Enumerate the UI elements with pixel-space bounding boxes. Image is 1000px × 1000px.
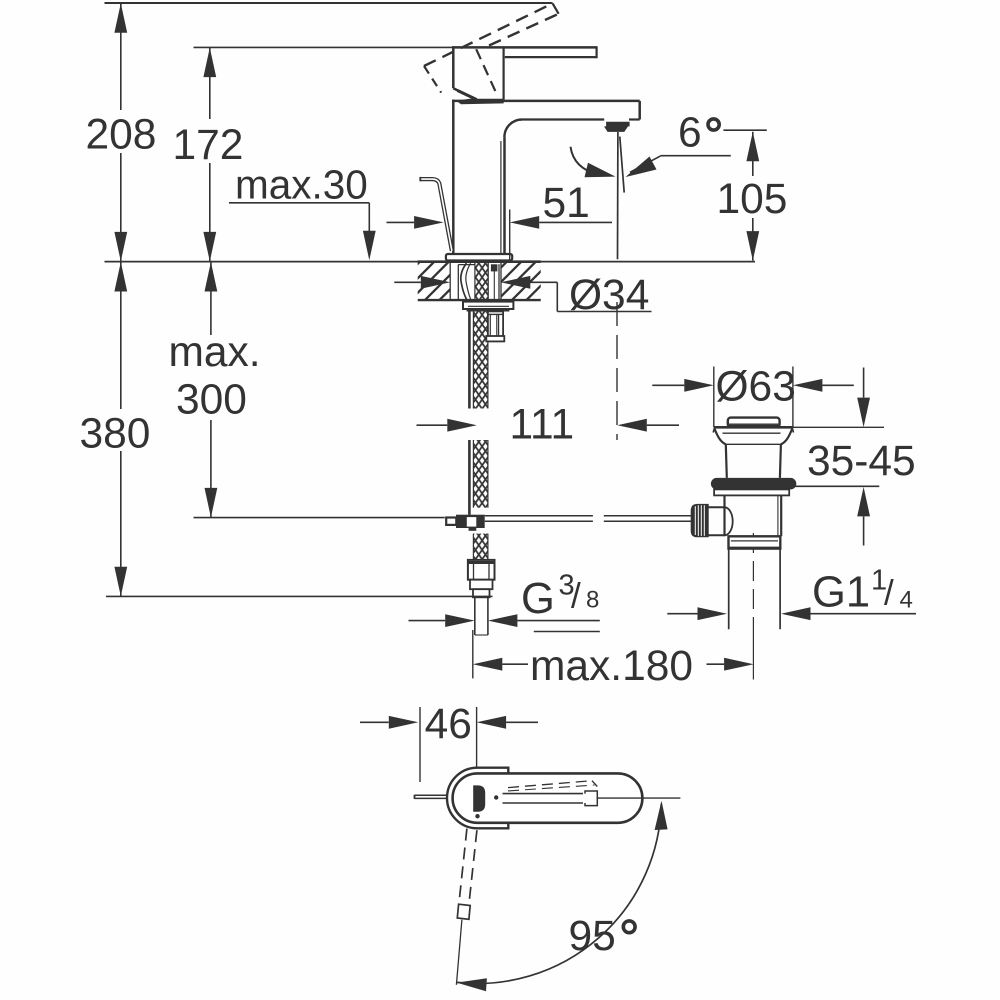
- top view centerline: [598, 797, 681, 799]
- svg-text:6: 6: [678, 110, 702, 157]
- top view cartridge mark: [473, 785, 485, 811]
- seal funnel curves: [461, 263, 467, 299]
- reference line 380 bottom: [106, 595, 493, 597]
- knurled knob: [692, 505, 708, 536]
- dim 208: [114, 3, 127, 33]
- pop-up rod (vertical, upper): [468, 311, 471, 409]
- svg-text:105: 105: [717, 176, 788, 223]
- horizontal pop-up rod to drain: [485, 515, 593, 517]
- svg-text:8: 8: [586, 587, 599, 614]
- svg-text:111: 111: [510, 402, 575, 449]
- faucet body left wall: [452, 100, 455, 255]
- svg-text:46: 46: [425, 701, 472, 748]
- drain hole centerline: [616, 302, 618, 440]
- svg-text:/: /: [571, 577, 581, 616]
- hose tail tube G3/8: [474, 597, 476, 635]
- countertop hatch left: [418, 263, 450, 300]
- spout underside: [629, 118, 640, 120]
- shank right tube: [498, 264, 500, 299]
- hose end hex nut: [468, 560, 495, 580]
- top view pop-up rod stub: [415, 794, 447, 796]
- washer under counter: [463, 302, 513, 309]
- water stream tilted 6deg: [620, 137, 624, 193]
- mounting hole left edge: [449, 263, 451, 300]
- countertop bottom line: [418, 299, 541, 301]
- dim max.180: [472, 630, 474, 678]
- funnel sides: [715, 429, 726, 445]
- lever (solid position): [452, 46, 597, 49]
- top view escutcheon: [447, 768, 508, 829]
- top view lever capsule: [453, 773, 643, 822]
- svg-text:208: 208: [86, 111, 157, 158]
- svg-text:380: 380: [80, 410, 151, 457]
- svg-text:95: 95: [569, 913, 616, 960]
- dim 172: [203, 48, 216, 78]
- threaded shank crosshatch (in hole): [475, 263, 488, 300]
- black seal band: [467, 309, 510, 312]
- svg-text:max.: max.: [169, 329, 261, 376]
- faucet body top: [452, 100, 640, 103]
- drain body: [723, 495, 725, 536]
- 95 degree arc: [457, 804, 661, 984]
- svg-text:max.30: max.30: [235, 162, 368, 208]
- aerator (black): [604, 122, 630, 132]
- dim G3/8: [409, 620, 446, 622]
- handle body: [452, 46, 455, 88]
- flexible hose crosshatch: [473, 311, 488, 408]
- drain pipe G1 1/4: [728, 549, 730, 630]
- svg-text:51: 51: [543, 180, 590, 227]
- mounting nut on shank: [488, 311, 503, 341]
- rubber gasket (black): [711, 478, 796, 490]
- svg-text:G: G: [521, 575, 555, 623]
- ball joint arc: [725, 507, 733, 535]
- knob connector: [708, 506, 725, 508]
- handle seam (black): [456, 99, 504, 104]
- pop-up rod (behind body): [420, 179, 452, 251]
- dim G1 1/4: [667, 613, 697, 615]
- pop-up rod link fitting: [446, 518, 456, 525]
- dim 111: [417, 424, 448, 426]
- hose connector: [470, 580, 493, 590]
- drain neck: [726, 444, 727, 478]
- dim diameter 34: [394, 281, 421, 283]
- drain flange: [714, 426, 793, 429]
- faucet body right wall: [503, 137, 506, 254]
- union collar: [729, 536, 781, 548]
- spout right edge: [638, 101, 641, 120]
- drain plug cap: [728, 418, 780, 428]
- svg-text:G1: G1: [812, 569, 870, 617]
- dim 51: [387, 221, 415, 223]
- dim diameter 63: [713, 367, 715, 428]
- countertop top surface line: [105, 261, 756, 263]
- lever (raised, dashed): [424, 3, 553, 66]
- rotated handle (dashed, down): [459, 829, 467, 904]
- countertop hatch right: [501, 263, 541, 300]
- dim max.300: [205, 262, 218, 292]
- washer below gasket: [714, 489, 789, 495]
- top view screw dots: [494, 795, 498, 799]
- reference line top (208): [105, 2, 553, 4]
- top view stem: [503, 793, 584, 795]
- svg-text:Ø34: Ø34: [569, 272, 649, 319]
- dim 46: [360, 721, 389, 723]
- svg-text:max.180: max.180: [530, 643, 693, 690]
- svg-text:4: 4: [900, 587, 913, 614]
- dim 380: [114, 262, 127, 292]
- svg-text:/: /: [884, 573, 894, 612]
- drain centerline: [752, 533, 754, 629]
- mounting hole right edge: [500, 263, 502, 300]
- spout fillet: [504, 120, 522, 138]
- reference line 172: [194, 46, 454, 48]
- svg-text:300: 300: [176, 377, 247, 424]
- top view stem dashed (rotated): [508, 781, 592, 788]
- water stream vertical: [617, 132, 619, 259]
- dim 105: [723, 129, 766, 131]
- base flange: [446, 254, 512, 261]
- svg-text:Ø63: Ø63: [716, 364, 796, 411]
- svg-text:35-45: 35-45: [807, 438, 916, 485]
- dim 35-45: [863, 368, 865, 398]
- svg-text:172: 172: [173, 122, 244, 169]
